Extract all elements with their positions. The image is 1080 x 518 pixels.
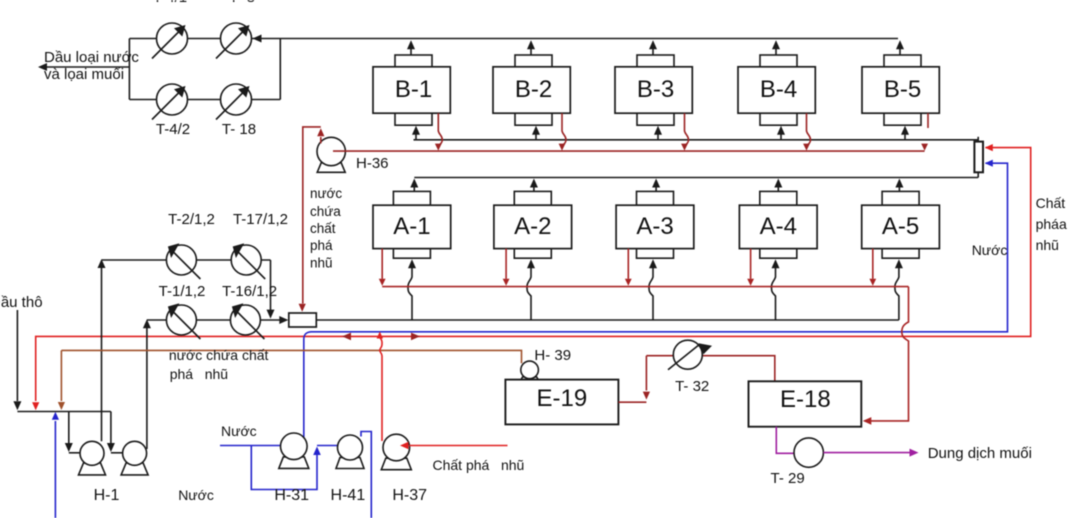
- wire manifold bottom tick: [977, 172, 979, 177]
- wire brine product line (purple): [823, 449, 918, 457]
- wire exchanger bottom branch: [129, 99, 280, 101]
- wire crude feed header to A row: [147, 319, 287, 321]
- svg-text:B-3: B-3: [637, 76, 674, 103]
- heat exchanger T-16/1,2: [230, 305, 260, 335]
- wire crude oil feed: [13, 310, 21, 410]
- heat exchanger T-1/1,2: [166, 305, 196, 335]
- wire B-3 inlet riser: [654, 126, 662, 140]
- wire blue makeup from bottom: [52, 412, 59, 518]
- svg-text:T- 8: T- 8: [229, 0, 255, 6]
- svg-text:A-2: A-2: [514, 213, 551, 240]
- wire B-4 vapor outlet: [772, 40, 780, 55]
- wire suction drop to H-1b: [107, 412, 123, 453]
- wire demulsifier water feed arrow into mixer: [299, 304, 306, 312]
- svg-text:Nước: Nước: [178, 487, 214, 503]
- vessel E-18: [749, 381, 862, 426]
- wire A-1 water drain (red): [379, 249, 386, 286]
- wire T-17 outlet drop: [267, 260, 275, 319]
- pump H-31: [279, 457, 309, 469]
- mixer manifold: [974, 142, 983, 173]
- wire H-31 bypass loop (blue): [251, 446, 345, 490]
- svg-text:nước chứa chất: nước chứa chất: [169, 347, 269, 363]
- wire H-1a discharge riser: [98, 259, 106, 441]
- wire B-2 inlet riser: [532, 126, 540, 140]
- wire left riser of exchanger loop: [128, 39, 130, 100]
- svg-text:T-16/1,2: T-16/1,2: [222, 283, 277, 300]
- wire H-37 discharge riser (red): [377, 332, 383, 442]
- wire brown feed drop: [58, 350, 65, 410]
- wire nuoc chua chat pha nhu line (brown): [61, 350, 521, 363]
- wire arrow into mixer tee: [279, 316, 288, 324]
- svg-text:Chất phá nhũ: Chất phá nhũ: [433, 457, 525, 473]
- svg-text:T-4/1: T-4/1: [153, 0, 187, 6]
- svg-text:nhũ: nhũ: [1036, 237, 1059, 253]
- wire H-41 outlet down (blue): [361, 432, 371, 518]
- wire T-2 row line: [102, 259, 271, 261]
- svg-text:H- 39: H- 39: [534, 347, 571, 364]
- wire A-2 water drain (red): [503, 249, 510, 286]
- svg-text:A-5: A-5: [882, 213, 919, 240]
- wire A-4 water drain (red): [747, 249, 754, 286]
- svg-text:T- 29: T- 29: [771, 470, 805, 487]
- wire A-2 feed riser from bottom header: [527, 259, 535, 320]
- svg-text:E-18: E-18: [780, 386, 831, 413]
- wire product outlet arrow: [47, 66, 129, 68]
- svg-text:T-17/1,2: T-17/1,2: [233, 211, 288, 228]
- vessel E-19: [505, 380, 618, 425]
- pump H-1b: [121, 463, 148, 475]
- vessel B-1: [373, 55, 450, 125]
- wire A-4 feed riser from bottom header: [772, 259, 780, 320]
- svg-text:B-4: B-4: [760, 76, 797, 103]
- svg-text:nước: nước: [310, 186, 342, 201]
- wire B-5 inlet riser: [901, 126, 909, 140]
- svg-text:H-37: H-37: [392, 487, 427, 504]
- heat exchanger T-17/1,2: [231, 245, 261, 275]
- wire H-36 suction (red): [303, 127, 325, 304]
- svg-text:H-41: H-41: [331, 487, 366, 504]
- svg-text:phá nhũ: phá nhũ: [170, 366, 228, 382]
- wire A-2 vapor outlet riser: [530, 179, 538, 192]
- pump H-36: [317, 163, 345, 173]
- wire A-4 vapor outlet riser: [774, 179, 782, 192]
- heat exchanger T-32: [668, 340, 712, 370]
- wire A-5 water drain (red): [869, 249, 876, 286]
- heat exchanger T-4/2: [157, 84, 188, 115]
- svg-text:Nước: Nước: [221, 423, 257, 439]
- svg-text:T- 18: T- 18: [222, 121, 256, 138]
- wire B-4 water drain (dark red): [803, 113, 810, 150]
- wire H-36 discharge (red): [333, 150, 925, 152]
- wire H-37 demulsifier inlet (red): [400, 442, 508, 450]
- mixer tee (static mixer): [289, 313, 317, 327]
- wire suction drop to H-1a: [65, 412, 81, 453]
- svg-text:A-1: A-1: [393, 213, 430, 240]
- svg-text:A-3: A-3: [636, 213, 673, 240]
- svg-text:chứa: chứa: [310, 204, 341, 219]
- wire pump suction header: [17, 411, 111, 413]
- wire B-1 vapor outlet: [407, 40, 415, 55]
- svg-text:T- 32: T- 32: [675, 378, 709, 395]
- wire A row top header: [414, 177, 978, 179]
- wire E-19 outlet to T-32 (dark red): [618, 356, 650, 403]
- pump H-37: [381, 458, 411, 470]
- svg-text:Dầu loại nước: Dầu loại nước: [44, 49, 139, 66]
- wire A row drain header (red): [382, 286, 908, 288]
- wire B row feed header: [414, 139, 979, 141]
- wire B-3 water drain (dark red): [681, 113, 688, 150]
- wire A-5 feed riser from bottom header: [895, 259, 903, 320]
- wire B-5 water drain (dark red): [921, 113, 928, 150]
- vessel A-5: [862, 191, 940, 258]
- wire T-32 line (dark red): [646, 356, 774, 382]
- svg-text:và lọai muối: và lọai muối: [44, 66, 124, 83]
- wire H-1b discharge riser: [143, 319, 151, 449]
- vessel A-1: [373, 191, 451, 258]
- wire A-3 vapor outlet riser: [652, 179, 660, 192]
- vessel A-2: [494, 191, 572, 258]
- svg-text:A-4: A-4: [760, 213, 797, 240]
- wire drain header corner to E-18 (dark red): [863, 287, 909, 425]
- wire manifold top tick: [977, 137, 979, 142]
- wire B-1 water drain (dark red): [435, 113, 442, 150]
- wire A-5 vapor outlet riser: [895, 179, 903, 192]
- wire B-2 vapor outlet: [527, 40, 535, 55]
- pump H-39: [519, 377, 541, 384]
- svg-text:phá: phá: [310, 238, 333, 253]
- heat exchanger T-2/1,2: [166, 245, 196, 275]
- wire B-2 water drain (dark red): [559, 113, 566, 150]
- wire water feed (blue): [304, 160, 1008, 438]
- wire flow arrow right on red feed line: [411, 333, 420, 341]
- svg-text:Dầu thô: Dầu thô: [0, 294, 43, 311]
- svg-text:nhũ: nhũ: [310, 256, 333, 271]
- wire A-3 water drain (red): [625, 249, 632, 286]
- svg-text:H-1: H-1: [94, 487, 120, 504]
- vessel B-2: [493, 55, 570, 125]
- wire A-1 vapor outlet riser: [410, 179, 418, 192]
- svg-text:pháa: pháa: [1036, 216, 1067, 232]
- wire B-3 vapor outlet: [649, 40, 657, 55]
- svg-text:chất: chất: [310, 221, 336, 236]
- wire H-31 water inlet (blue): [220, 442, 298, 450]
- pump H-41: [336, 458, 364, 469]
- wire E-18 brine outlet (purple): [776, 427, 794, 454]
- wire top output header: [129, 38, 898, 40]
- wire B-1 inlet riser: [412, 126, 420, 140]
- svg-text:B-5: B-5: [884, 76, 921, 103]
- svg-text:E-19: E-19: [537, 385, 588, 412]
- heat exchanger T-4/1: [157, 23, 188, 54]
- wire B-5 vapor outlet: [896, 40, 904, 55]
- vessel B-5: [862, 55, 939, 125]
- vessel B-3: [615, 55, 692, 125]
- wire right riser of exchanger loop: [279, 39, 281, 100]
- wire flow arrow into T-8: [253, 35, 262, 43]
- svg-text:H-36: H-36: [356, 155, 389, 172]
- svg-text:B-1: B-1: [395, 76, 432, 103]
- pump H-1a: [79, 463, 106, 475]
- wire B-4 inlet riser: [777, 126, 785, 140]
- wire flow arrow left on red feed line: [342, 333, 351, 341]
- svg-text:B-2: B-2: [515, 76, 552, 103]
- svg-text:H-31: H-31: [274, 487, 309, 504]
- heat exchanger T-18: [221, 84, 252, 115]
- valve T-29: [794, 438, 823, 467]
- wire demulsifier feed (red): [32, 144, 1031, 410]
- vessel A-4: [739, 191, 817, 258]
- svg-text:T-4/2: T-4/2: [156, 121, 190, 138]
- svg-text:T-1/1,2: T-1/1,2: [159, 283, 206, 300]
- wire A-1 feed riser from bottom header: [408, 259, 416, 320]
- vessel A-3: [616, 191, 694, 258]
- svg-text:T-2/1,2: T-2/1,2: [168, 211, 215, 228]
- heat exchanger T-8: [221, 23, 252, 54]
- wire A-3 feed riser from bottom header: [649, 259, 657, 320]
- svg-text:Dung dịch muối: Dung dịch muối: [928, 445, 1032, 462]
- svg-text:Nước: Nước: [972, 242, 1008, 258]
- svg-text:Chất: Chất: [1036, 195, 1066, 211]
- vessel B-4: [738, 55, 815, 125]
